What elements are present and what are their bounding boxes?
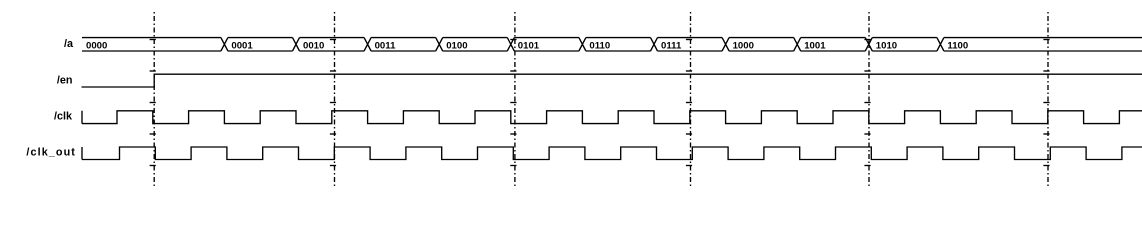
svg-text:0100: 0100 [446,40,467,51]
svg-text:0101: 0101 [518,40,540,51]
svg-text:/en: /en [57,75,73,87]
svg-text:1001: 1001 [804,40,826,51]
svg-text:/a: /a [64,38,74,50]
svg-text:0010: 0010 [303,40,324,51]
svg-text:1000: 1000 [733,40,754,51]
svg-text:1100: 1100 [947,40,968,51]
svg-text:/clk: /clk [54,111,73,123]
svg-text:1010: 1010 [876,40,897,51]
svg-text:0000: 0000 [86,40,107,51]
svg-text:0011: 0011 [375,40,396,51]
svg-text:0111: 0111 [661,40,682,51]
svg-text:0001: 0001 [231,40,253,51]
svg-text:/clk_out: /clk_out [26,147,76,159]
svg-text:0110: 0110 [589,40,610,51]
